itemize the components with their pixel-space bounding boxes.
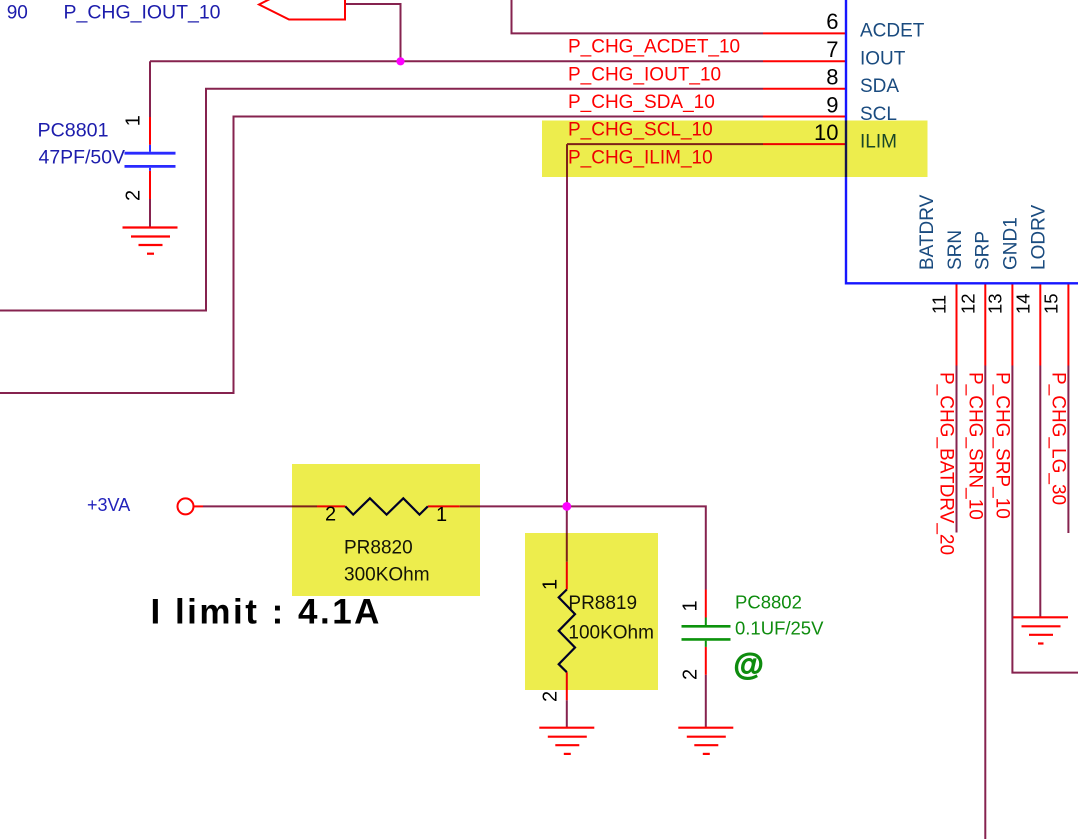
wire net SRP pin 13 to right edge bbox=[1012, 366, 1078, 673]
capacitor PC8801 plates bbox=[125, 145, 176, 171]
wire +3VA to PR8820 pin 2 bbox=[203, 505, 317, 507]
wire net IOUT horizontal to pin 7 bbox=[150, 60, 763, 62]
ground (PC8802) bbox=[678, 728, 733, 754]
wire net ILIM vertical to junction B bbox=[566, 144, 568, 506]
svg-text:2: 2 bbox=[540, 691, 562, 702]
wire PC8802 pin2 to ground bbox=[705, 675, 707, 728]
svg-text:SRP: SRP bbox=[973, 231, 994, 270]
IC U1 body outline bbox=[846, 0, 1078, 283]
wire junction B to PC8802 bbox=[567, 506, 706, 589]
svg-text:P_CHG_SDA_10: P_CHG_SDA_10 bbox=[568, 92, 715, 113]
wire net BATDRV pin 11 bbox=[956, 366, 958, 533]
resistor PR8819 pin 2 stub bbox=[566, 672, 568, 700]
svg-text:13: 13 bbox=[985, 293, 1006, 314]
svg-text:9: 9 bbox=[826, 92, 838, 117]
junction A dot bbox=[396, 57, 404, 65]
svg-text:P_CHG_IOUT_10: P_CHG_IOUT_10 bbox=[64, 3, 221, 24]
pin 8 stub bbox=[763, 88, 846, 90]
net connector circle +3VA bbox=[178, 498, 194, 514]
svg-text:PC8801: PC8801 bbox=[38, 121, 109, 142]
svg-text:+3VA: +3VA bbox=[87, 495, 130, 515]
resistor PR8820 zigzag bbox=[345, 498, 428, 514]
svg-text:14: 14 bbox=[1013, 293, 1034, 314]
resistor PR8820 pin 2 stub bbox=[317, 505, 345, 507]
wire PC8801 pin1 riser bbox=[149, 61, 151, 117]
highlight box on PR8819 bbox=[525, 533, 658, 690]
ground (PR8819) bbox=[539, 728, 594, 754]
wire net ILIM horizontal to pin 10 bbox=[567, 143, 763, 145]
svg-text:P_CHG_IOUT_10: P_CHG_IOUT_10 bbox=[568, 65, 721, 86]
svg-text:11: 11 bbox=[929, 295, 950, 314]
svg-text:SDA: SDA bbox=[860, 76, 899, 97]
wire off-page arrow to junction A bbox=[345, 4, 401, 61]
svg-text:2: 2 bbox=[123, 190, 145, 201]
resistor PR8819 zigzag bbox=[559, 590, 575, 673]
svg-text:P_CHG_LG_30: P_CHG_LG_30 bbox=[1047, 372, 1068, 505]
wire PC8801 pin2 to ground bbox=[149, 199, 151, 228]
svg-text:P_CHG_SRN_10: P_CHG_SRN_10 bbox=[964, 372, 985, 520]
svg-text:P_CHG_BATDRV_20: P_CHG_BATDRV_20 bbox=[936, 372, 957, 555]
wire net ACDET from top edge to pin 6 bbox=[512, 0, 764, 33]
pin 10 stub bbox=[763, 143, 846, 145]
wire PR8820 pin1 to junction B bbox=[460, 505, 567, 507]
ground (GND1 pin 14) bbox=[1013, 617, 1068, 643]
svg-text:P_CHG_SRP_10: P_CHG_SRP_10 bbox=[991, 372, 1012, 519]
capacitor PC8802 plates bbox=[682, 618, 731, 647]
svg-text:1: 1 bbox=[123, 115, 145, 126]
highlight box on ILIM rows bbox=[542, 121, 928, 178]
svg-text:GND1: GND1 bbox=[1001, 217, 1022, 270]
wire GND1 pin 14 to ground bbox=[1039, 366, 1041, 618]
svg-text:0.1UF/25V: 0.1UF/25V bbox=[735, 618, 824, 639]
svg-text:ACDET: ACDET bbox=[860, 21, 925, 42]
wire net SRN pin 12 to bottom edge bbox=[984, 366, 986, 839]
net connector +3VA stub bbox=[194, 505, 204, 507]
svg-text:@: @ bbox=[734, 647, 764, 682]
svg-text:I limit : 4.1A: I limit : 4.1A bbox=[151, 593, 382, 632]
IC U1 pin stubs bbox=[150, 33, 1068, 700]
highlight box on PR8820 bbox=[292, 464, 480, 596]
pin 11 stub bbox=[956, 285, 958, 366]
svg-text:15: 15 bbox=[1041, 293, 1062, 314]
capacitor PC8801 pin 1 bbox=[149, 117, 151, 145]
resistor PR8819 pin 1 stub bbox=[566, 562, 568, 590]
svg-text:SRN: SRN bbox=[945, 230, 966, 270]
svg-text:PC8802: PC8802 bbox=[735, 592, 802, 613]
svg-text:BATDRV: BATDRV bbox=[917, 194, 938, 270]
pin 15 stub bbox=[1067, 285, 1069, 366]
ground (PC8801) bbox=[123, 228, 178, 254]
svg-text:7: 7 bbox=[826, 37, 838, 62]
capacitor PC8801 pin 2 bbox=[149, 171, 151, 199]
capacitor PC8802 pin 1 stub bbox=[705, 590, 707, 618]
wire junction B to PR8819 pin 1 bbox=[566, 506, 568, 561]
capacitor PC8802 pin 2 stub bbox=[705, 647, 707, 675]
wire net SCL to pin 9 bbox=[0, 117, 763, 394]
pin 9 stub bbox=[763, 116, 846, 118]
junction B dot bbox=[562, 502, 571, 511]
svg-text:P_CHG_ACDET_10: P_CHG_ACDET_10 bbox=[568, 37, 740, 58]
svg-text:12: 12 bbox=[958, 293, 979, 314]
svg-text:IOUT: IOUT bbox=[860, 49, 906, 70]
resistor PR8820 pin 1 stub bbox=[428, 505, 460, 507]
wire PR8819 pin2 to ground bbox=[566, 700, 568, 728]
pin 13 stub bbox=[1011, 285, 1013, 366]
svg-text:8: 8 bbox=[826, 65, 838, 90]
pin 14 stub bbox=[1039, 285, 1041, 366]
wire net SDA to pin 8 bbox=[0, 89, 763, 311]
pin 7 stub bbox=[763, 60, 846, 62]
pin 12 stub bbox=[984, 285, 986, 366]
off-page connector arrow P_CHG_IOUT_10 bbox=[259, 0, 345, 20]
svg-text:1: 1 bbox=[680, 600, 702, 611]
svg-text:2: 2 bbox=[680, 669, 702, 680]
svg-text:90: 90 bbox=[7, 3, 28, 24]
pin 6 stub bbox=[763, 32, 846, 34]
svg-text:47PF/50V: 47PF/50V bbox=[39, 148, 126, 169]
wire net LODRV pin 15 bbox=[1067, 366, 1069, 534]
svg-text:LODRV: LODRV bbox=[1029, 205, 1050, 270]
svg-text:6: 6 bbox=[826, 9, 838, 34]
